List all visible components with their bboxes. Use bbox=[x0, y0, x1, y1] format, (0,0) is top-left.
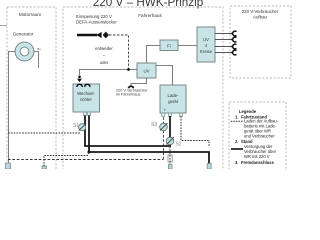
svg-text:S3: S3 bbox=[151, 122, 157, 128]
output connector 1 bbox=[231, 31, 236, 36]
svg-text:B+: B+ bbox=[38, 47, 42, 51]
svg-text:WR mit 220 V: WR mit 220 V bbox=[244, 154, 270, 159]
switch S1 bbox=[79, 124, 86, 131]
Motorraum dashed box bbox=[7, 7, 56, 172]
output connector 2 bbox=[231, 37, 236, 42]
WR top socket left bbox=[77, 84, 82, 87]
svg-text:Generator: Generator bbox=[13, 32, 34, 37]
svg-text:gerät: gerät bbox=[168, 99, 179, 104]
socket 220V Verbraucher Fahrerhaus bbox=[128, 86, 133, 88]
Ladegeraet box bbox=[160, 85, 186, 113]
left edge stub bbox=[0, 25, 7, 27]
Wechselrichter box bbox=[73, 84, 100, 112]
junction dot on B bbox=[88, 151, 91, 154]
svg-text:+: + bbox=[164, 108, 167, 113]
thick bus: WR right terminal down, line B bbox=[89, 116, 209, 164]
svg-text:UV: UV bbox=[203, 37, 209, 42]
legend solid line indicator bbox=[231, 148, 243, 150]
svg-text:entweder: entweder bbox=[95, 46, 113, 51]
legend text bbox=[235, 109, 279, 165]
generator G1 bbox=[15, 42, 34, 61]
switch S2 bbox=[166, 137, 174, 145]
thick wire Ladegeraet middle terminal to S2 to A bbox=[169, 116, 171, 146]
terminal Aufbaubatterie right bbox=[207, 164, 211, 170]
svg-text:Lade-: Lade- bbox=[168, 93, 180, 98]
junction dot bbox=[127, 68, 130, 71]
wire UV right to Ladegeraet bbox=[156, 66, 173, 86]
UV box bbox=[137, 63, 156, 78]
DEFA dashed wire to junction bbox=[109, 35, 129, 70]
terminal below fuse bbox=[168, 165, 172, 170]
dashed wire up to S3 and Ladegeraet left terminal bbox=[163, 117, 165, 160]
switch S3 bbox=[160, 123, 168, 131]
svg-text:richter: richter bbox=[80, 97, 93, 102]
svg-text:S1: S1 bbox=[73, 123, 79, 129]
svg-text:UV: UV bbox=[143, 69, 149, 74]
svg-text:im Fahrerhaus: im Fahrerhaus bbox=[116, 93, 141, 97]
wire generator right stub bbox=[34, 52, 39, 69]
DEFA plug triangle bbox=[96, 32, 101, 38]
output connector 3 bbox=[231, 44, 236, 49]
UV4 output wires bbox=[215, 33, 232, 35]
DEFA diamond bbox=[103, 32, 109, 39]
main 220V wire to UV bbox=[80, 70, 138, 76]
wire generator left to down bbox=[9, 52, 17, 164]
svg-text:220 V – HWK-Prinzip: 220 V – HWK-Prinzip bbox=[93, 0, 204, 9]
thick bus: WR left terminal down, line A bbox=[85, 116, 171, 147]
Fi box bbox=[160, 40, 178, 51]
svg-text:S2: S2 bbox=[176, 142, 182, 148]
DEFA cable thick bbox=[77, 34, 97, 36]
dotted wire Ladegeraet right terminal to right bus corner bbox=[181, 117, 209, 148]
legend dotted line indicator bbox=[231, 120, 243, 122]
UV 4 Kreise box bbox=[197, 27, 215, 62]
wire UV bottom to socket bbox=[131, 78, 147, 86]
dotted wire from battery to junction bbox=[44, 153, 89, 166]
svg-text:Kreise: Kreise bbox=[200, 49, 213, 54]
Fahrerhaus dashed box bbox=[63, 7, 223, 172]
dotted wire S2 down through fuse bbox=[169, 147, 171, 164]
battery terminal 2 bbox=[42, 166, 47, 169]
svg-text:oder: oder bbox=[100, 60, 109, 65]
svg-text:220 V Verbraucher: 220 V Verbraucher bbox=[116, 88, 148, 92]
WR terminal tabs bbox=[83, 112, 86, 115]
svg-text:Wechsel-: Wechsel- bbox=[77, 91, 95, 96]
svg-text:Legende: Legende bbox=[239, 109, 257, 114]
WR top socket right bbox=[85, 84, 90, 87]
Legende dashed box bbox=[229, 102, 286, 172]
svg-text:2.: 2. bbox=[235, 139, 238, 144]
wire Fi to UV4 bbox=[178, 45, 197, 47]
fuse F1 bbox=[168, 155, 172, 162]
svg-text:Fahrerhaus: Fahrerhaus bbox=[138, 13, 162, 18]
Ladegeraet terminal tabs bbox=[162, 113, 165, 116]
starter battery terminal bbox=[6, 163, 11, 169]
220V-Verbraucher Aufbau dashed box bbox=[230, 6, 291, 78]
svg-text:3.: 3. bbox=[235, 160, 238, 165]
svg-text:DEFA-Aussenstecker: DEFA-Aussenstecker bbox=[76, 20, 117, 25]
output connector 4 bbox=[231, 50, 236, 55]
svg-text:und Verbraucher: und Verbraucher bbox=[244, 134, 275, 139]
svg-text:Aufbau: Aufbau bbox=[253, 15, 267, 20]
wire UV top to Fi bbox=[147, 46, 161, 64]
svg-text:Einspeisung 220 V: Einspeisung 220 V bbox=[76, 14, 112, 19]
plug into WR: dot bbox=[78, 76, 81, 79]
dashed wire Fremdanschluss horizontal bbox=[8, 159, 163, 161]
plug into WR: triangle bbox=[77, 79, 82, 83]
svg-text:1.: 1. bbox=[235, 114, 238, 119]
svg-text:Motorraum: Motorraum bbox=[19, 12, 41, 17]
svg-text:220 V-Verbraucher: 220 V-Verbraucher bbox=[242, 9, 279, 14]
dotted wire generator to S1 bbox=[9, 132, 80, 134]
svg-text:Fi: Fi bbox=[167, 43, 171, 48]
svg-text:Fremdanschluss: Fremdanschluss bbox=[241, 160, 275, 165]
